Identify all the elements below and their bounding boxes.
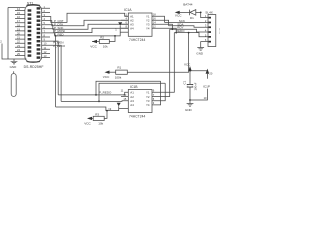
svg-text:IC1P: IC1P (203, 85, 210, 89)
IC1B right pin numbers (153, 89, 155, 106)
svg-text:11: 11 (121, 89, 124, 93)
svg-text:Y4: Y4 (146, 103, 150, 107)
junction enable split (55, 35, 57, 37)
junction R1/REDO (188, 32, 190, 34)
svg-text:GND: GND (10, 65, 18, 69)
wire P_MOSI (pin6 to IC1A A4) (50, 28, 128, 32)
wire R1 to REDO net (127, 33, 188, 73)
wire into IC1B pin15 (61, 100, 128, 103)
resistor R1 (115, 66, 128, 80)
wire SV1 pin6 to ground (201, 42, 204, 48)
svg-text:100nF: 100nF (193, 82, 197, 90)
wire detour P_REDO to IC1B A3 (99, 83, 165, 101)
svg-text:GND: GND (196, 52, 204, 56)
connector X1 body (DB25) (25, 5, 42, 63)
wire P_SCK (pin5 to IC1A A3) (50, 24, 128, 29)
vertical REDO to IC1B Y1 (152, 33, 174, 93)
svg-text:SL4X: SL4X (205, 11, 213, 15)
resistor R1 VCC arrow (103, 71, 116, 80)
wire P_CNT (pin3 up over to IC1A A1) (50, 13, 128, 22)
wire VCC to IC1P (190, 70, 207, 72)
supply VCC top right (175, 11, 190, 18)
supply VCC capacitor branch (184, 62, 192, 103)
svg-text:10: 10 (204, 96, 207, 100)
svg-text:R3: R3 (95, 112, 99, 116)
junction P_REDO tap (95, 94, 97, 96)
vertical tap to IC1B Y4 (152, 81, 161, 105)
wire P_DTA (pin4 to IC1A A2) (50, 20, 128, 26)
SV1 pin numbers (205, 14, 207, 42)
wire P_WEN (pin10 down to IC1B A1) (50, 41, 58, 95)
connector X1 left pin numbers (17, 7, 20, 56)
diode D1 BAT44 (183, 3, 196, 21)
svg-text:A4: A4 (130, 103, 134, 107)
op IC1A box (128, 13, 152, 36)
op IC1B box (128, 90, 152, 113)
svg-text:VCC: VCC (103, 75, 110, 79)
resistor R2 VCC arrow (90, 40, 99, 49)
svg-text:2: 2 (0, 40, 2, 44)
svg-text:74HCT244: 74HCT244 (129, 38, 145, 42)
svg-text:BAT44: BAT44 (183, 3, 193, 7)
wire P_RED enable net (pin7 to IC1A G and IC1B G) (50, 26, 120, 36)
IC1B output names (146, 91, 150, 108)
IC1A right pin numbers (153, 13, 156, 29)
wire IC1A Y4 to REDO net (159, 28, 177, 32)
wire SDA net row (169, 26, 204, 27)
connector shield pad (13, 71, 15, 73)
svg-text:C1: C1 (182, 80, 186, 84)
svg-text:10k: 10k (98, 121, 103, 125)
svg-text:VCC: VCC (175, 13, 182, 17)
IC1B enable triangle (117, 103, 121, 107)
svg-text:REDO: REDO (176, 29, 185, 33)
svg-text:R2: R2 (100, 35, 104, 39)
svg-text:P_REDO: P_REDO (99, 91, 112, 95)
wire D1 to SV1 pin1 (196, 12, 204, 17)
capacitor C1 (182, 80, 197, 90)
IC1B left pin numbers (123, 93, 126, 101)
ground under connector (10, 59, 18, 69)
junction detour P_REDO (98, 101, 100, 103)
wire enable down to IC1B (55, 36, 57, 107)
svg-text:VCC: VCC (90, 45, 97, 49)
svg-text:20: 20 (209, 71, 212, 75)
wire R2 to enable net (109, 36, 115, 42)
IC1A enable triangle (118, 22, 122, 26)
svg-text:DS-RD25HF: DS-RD25HF (24, 65, 44, 69)
wire left edge stub (2, 44, 8, 60)
svg-text:SV1: SV1 (218, 28, 220, 34)
resistor R3 VCC arrow (84, 117, 93, 126)
IC1A input names (130, 14, 134, 30)
connector X1 left pin pads (28, 9, 32, 57)
ground under SV1 (196, 48, 204, 56)
wire P_REDO2 (pin11 down to IC1B A3) (50, 45, 61, 101)
wire P_REDO to IC1B pin11 (58, 92, 128, 95)
ground under C1 (185, 104, 193, 112)
wire SCK net row (165, 21, 204, 23)
resistor R3 (93, 112, 104, 125)
IC1A output names (146, 14, 150, 30)
junction Y3/RDY (172, 28, 174, 30)
header SV1 box (208, 15, 216, 47)
wire IC1A Y1 to SCK net (159, 16, 165, 22)
svg-text:IC1B: IC1B (130, 85, 138, 89)
svg-text:IC1A: IC1A (124, 8, 132, 12)
wire IC1A Y2 to SDA net (159, 20, 169, 26)
connector X1 right pin pads (37, 7, 41, 59)
IC1B left stub pin13 (121, 96, 128, 98)
svg-text:D1: D1 (190, 16, 194, 20)
IC1A right pin stubs (152, 16, 159, 28)
svg-text:R1: R1 (117, 66, 121, 70)
svg-text:10k: 10k (103, 45, 108, 49)
vertical tap to IC1B Y3 (152, 83, 165, 100)
svg-text:74HCT244: 74HCT244 (129, 115, 145, 119)
wire IC1A Y3 to RDY net (159, 24, 173, 29)
IC1A left pin numbers (126, 13, 128, 29)
resistor R2 (99, 35, 109, 48)
IC1A left pin stubs (121, 16, 128, 28)
vertical RDY to IC1B Y2 (152, 29, 170, 96)
svg-text:100k: 100k (115, 75, 122, 79)
svg-text:VCC: VCC (84, 121, 91, 125)
wire R3 to enable (104, 111, 107, 119)
connector X1 right pin numbers (44, 5, 47, 58)
svg-text:VCC: VCC (184, 62, 191, 66)
power symbol IC1P (190, 69, 213, 101)
SV1 pin stubs (204, 18, 209, 42)
svg-text:Y4: Y4 (146, 26, 150, 30)
connector X1 right pin stubs (42, 8, 50, 57)
junction R2/enable (114, 35, 116, 37)
junction Y4/REDO (175, 32, 177, 34)
svg-text:P_REDO: P_REDO (53, 44, 66, 48)
junction R3/enable (106, 110, 108, 112)
IC1B input names (130, 91, 134, 108)
wire GND bus left of connector (8, 8, 27, 60)
SV1 pin pads (208, 17, 211, 43)
svg-text:ST1: ST1 (27, 1, 34, 5)
svg-text:A4: A4 (130, 26, 134, 30)
connector X1 left pin stubs (15, 10, 25, 55)
wire RDY net row (170, 29, 204, 32)
wire REDO net row (174, 33, 203, 37)
wire IC1B enable from P_RED (56, 106, 119, 110)
svg-text:GND: GND (185, 108, 193, 112)
wire detour P_WEN to IC1B A4 (96, 81, 161, 95)
